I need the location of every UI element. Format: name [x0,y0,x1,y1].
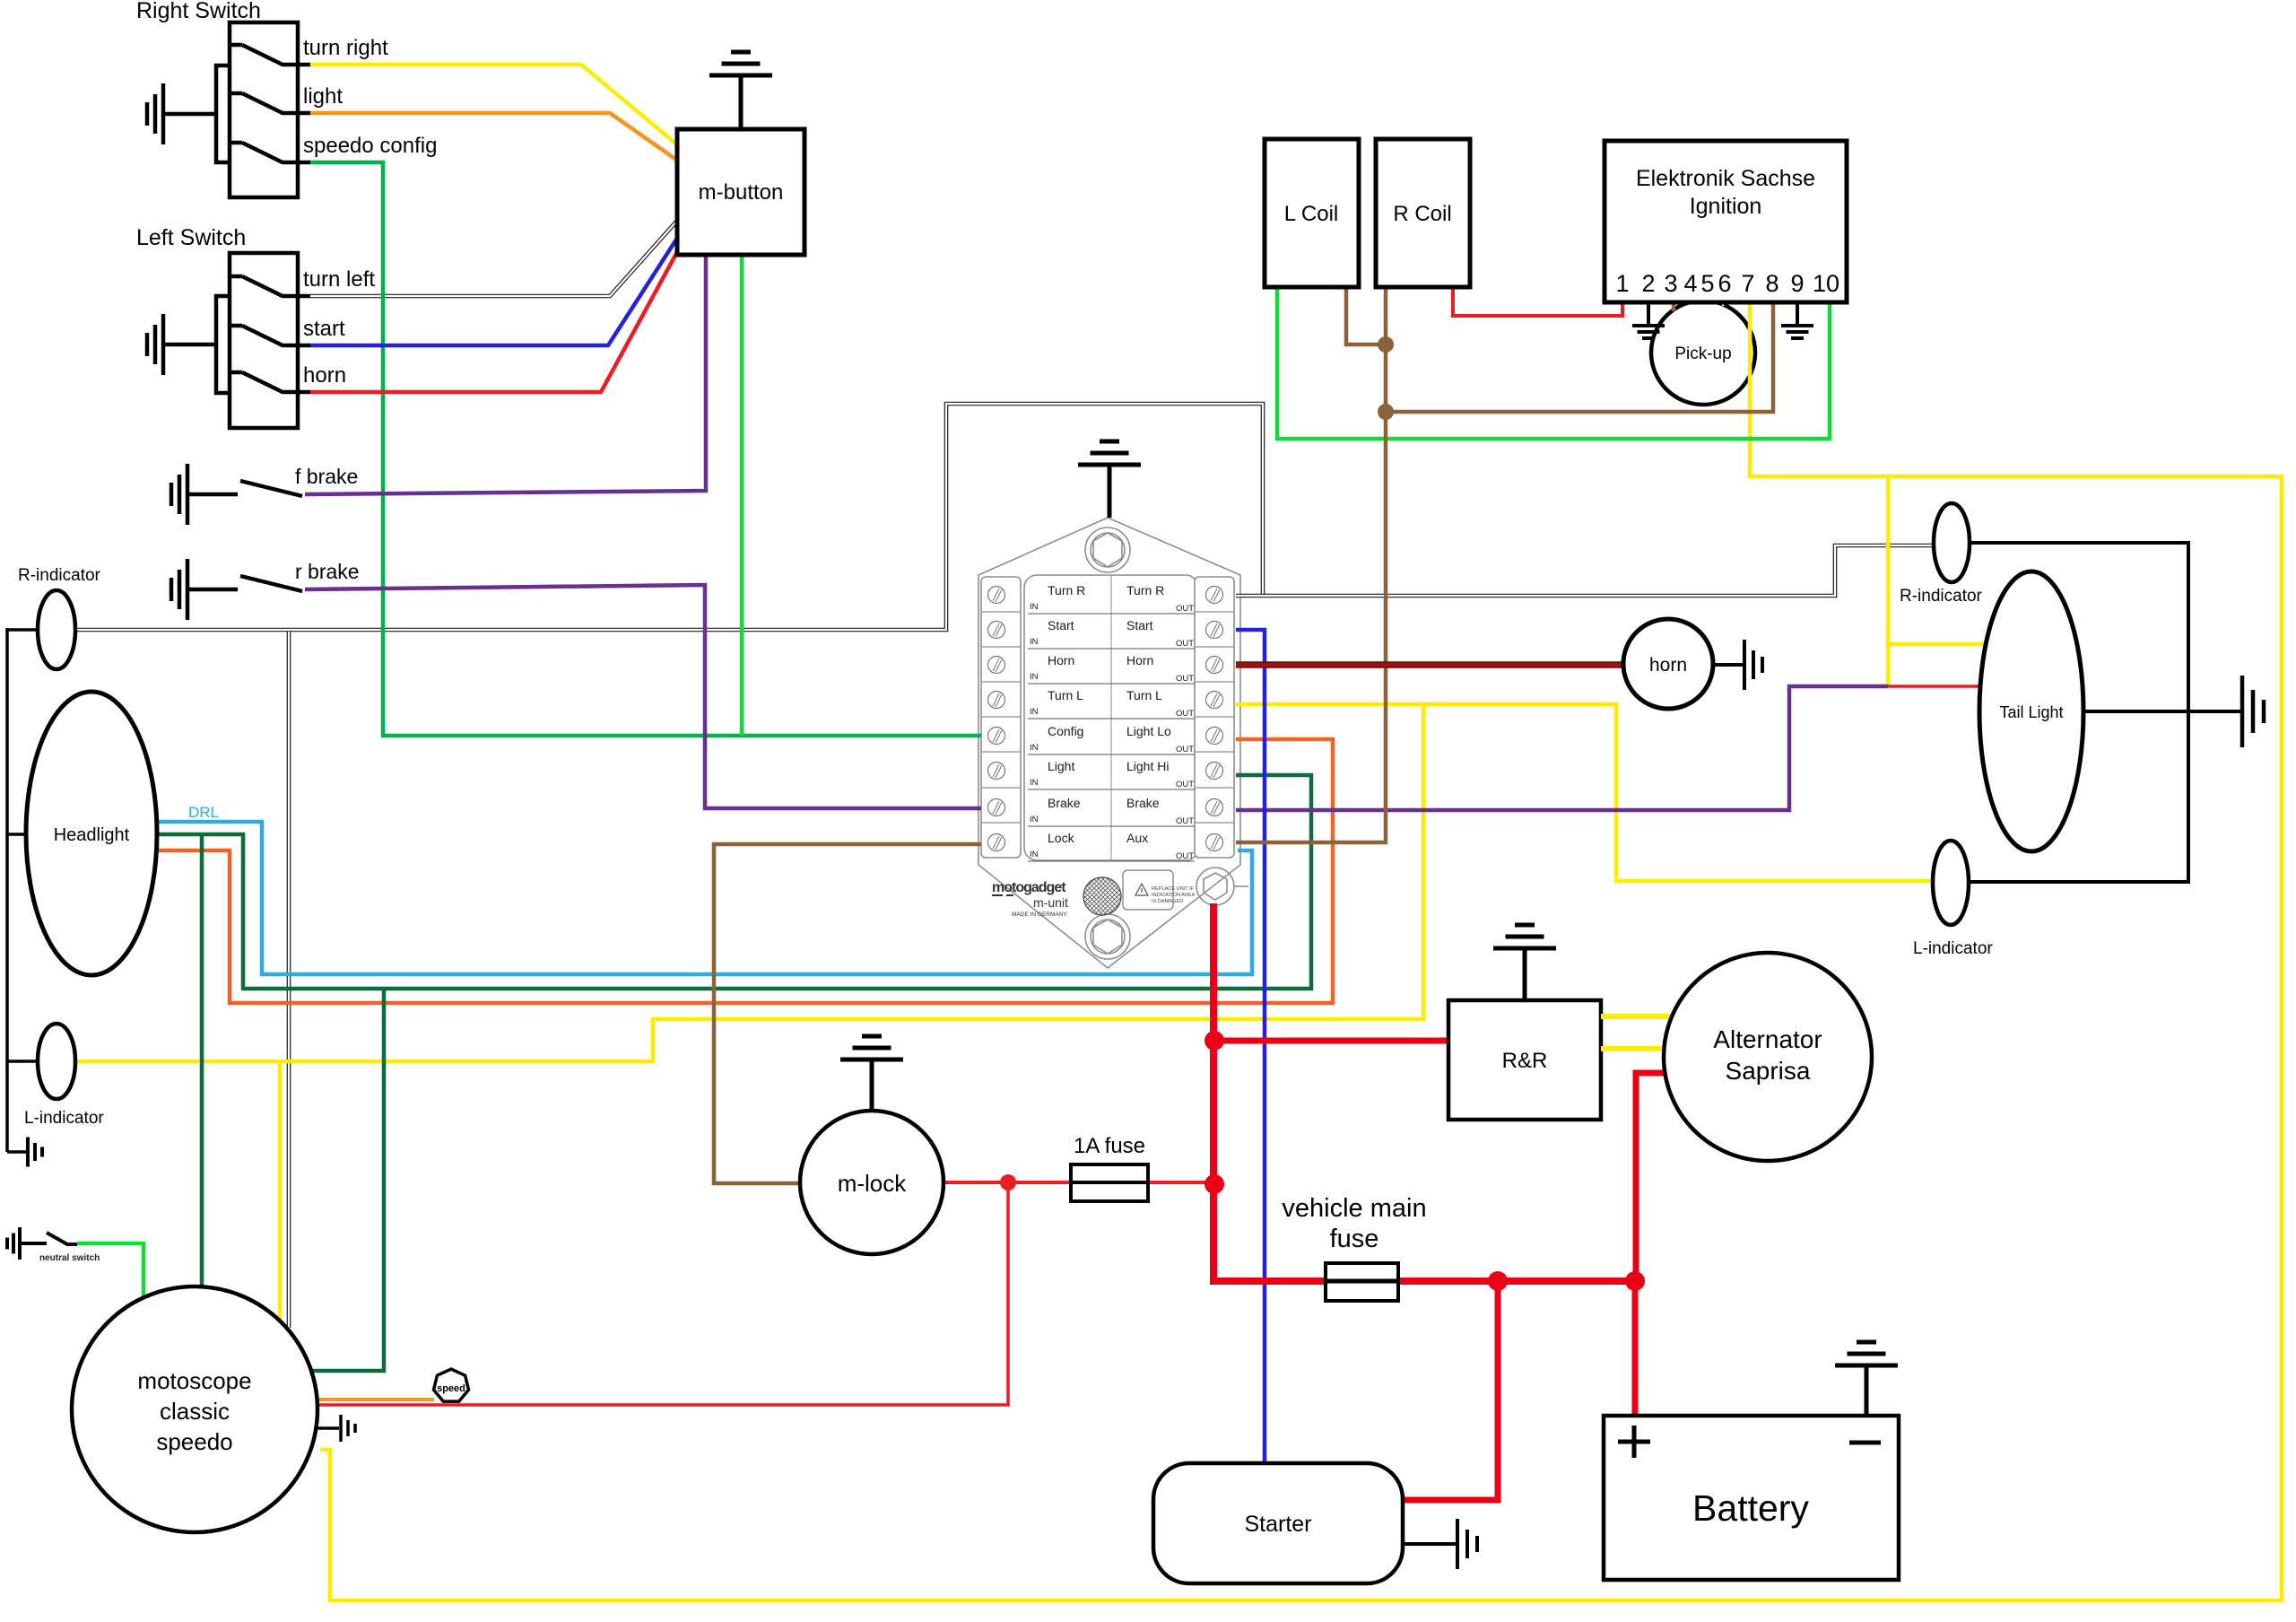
svg-text:6: 6 [1718,270,1731,297]
horn circle [1623,619,1713,709]
wire: dark green headlight branch to speedo top [200,834,204,1301]
r brake switch [187,588,238,592]
ground for Right Switch [163,112,216,117]
1A fuse [1071,1164,1148,1201]
Right Switch bracket [216,65,230,162]
svg-text:Starter: Starter [1244,1512,1311,1537]
svg-text:5: 5 [1700,270,1714,297]
wire: brown Aux OUT to coils [1236,278,1386,842]
wire: green speedo-config switch to Config IN [310,162,981,736]
svg-text:1A fuse: 1A fuse [1074,1134,1145,1158]
m-lock circle [800,1111,944,1254]
wire: dark green Light Hi OUT to headlight [143,775,1311,989]
wire: purple r-brake to Brake IN [305,585,981,808]
Right Switch box [230,22,298,197]
ground ignition pin 9 [1796,302,1799,326]
wire: red horn switch to m-button [310,250,678,392]
left harness black bus [5,628,9,1152]
tail light ground line [2083,710,2240,713]
wire: thick red bus to Battery + [1632,1281,1639,1422]
wire: yellow turn-right switch to m-button [310,65,679,146]
L-indicator right ellipse [1933,841,1969,925]
ground above R&R [1523,948,1527,1000]
Pick-up circle (under wires) [1651,301,1755,405]
L-indicator left ellipse [38,1024,75,1099]
wire: red R Coil to ignition pin 1 [1453,278,1622,316]
m-unit channel labels [1028,583,1195,861]
black link R-indicator to L-indicator right [1970,543,2188,882]
wire: green ignition pin 4 to pick-up [1691,296,1695,303]
svg-text:motogadget: motogadget [992,880,1066,895]
svg-text:L-indicator: L-indicator [1913,939,1993,958]
svg-text:Ignition: Ignition [1690,194,1762,219]
neutral switch [20,1242,47,1245]
Left Switch bracket [216,296,230,393]
Alternator Saprisa circle [1664,953,1872,1161]
speedo ground [314,1426,339,1430]
vehicle main fuse [1326,1263,1398,1301]
svg-text:m-lock: m-lock [838,1170,908,1197]
svg-text:Horn: Horn [1048,653,1074,667]
svg-text:Left Switch: Left Switch [136,225,246,250]
junction: brown node L Coil tap [1378,336,1394,353]
svg-text:Saprisa: Saprisa [1726,1057,1811,1085]
svg-text:vehicle main: vehicle main [1282,1194,1426,1223]
svg-text:3: 3 [1664,270,1677,297]
svg-text:Brake: Brake [1048,796,1081,810]
svg-text:2: 2 [1641,270,1655,297]
svg-text:Start: Start [1048,618,1074,632]
Left Switch contacts [230,276,310,296]
left L-indicator stub [7,1060,39,1063]
speed sensor hexagon [434,1369,469,1401]
junction: red node at R&R tap [1205,1031,1224,1051]
svg-text:OUT: OUT [1176,816,1194,826]
wire: orange light switch to m-button [310,113,679,161]
junction: red node bus to battery [1625,1271,1645,1291]
junction: red node at m-lock output [1000,1174,1016,1190]
svg-text:OUT: OUT [1176,780,1194,789]
wire: white turn-left switch to m-button [310,221,677,296]
Battery box [1604,1416,1899,1580]
junction: brown node pin 8 tap [1378,404,1394,420]
battery plus sign [1618,1426,1650,1458]
svg-text:Turn L: Turn L [1048,688,1083,702]
wire: blue Start OUT to Starter [1236,630,1265,1471]
wire: thick red main power m-unit to bus [1213,903,1635,1281]
wire: white R-indicator loop around m-unit to Turn R OUT [75,404,1263,630]
battery minus bar [1849,1441,1881,1445]
wire: purple Brake OUT to tail light junction [1236,686,1888,810]
svg-text:Light Hi: Light Hi [1126,759,1169,773]
wire: brown branch to L Coil [1346,278,1386,344]
wire: thick red bus to R&R [1213,1038,1457,1044]
svg-text:DRL: DRL [188,804,219,821]
ground above m-button [739,75,744,129]
wire: white speedo feed [287,632,291,1328]
wire: blue start switch to m-button [310,240,676,345]
ground for horn [1713,663,1743,667]
wire: yellow Turn L OUT to right L-indicator [1236,704,1935,881]
svg-text:OUT: OUT [1176,851,1194,861]
svg-text:L Coil: L Coil [1284,202,1338,226]
Elektronik Sachse Ignition box [1605,141,1847,302]
wire: yellow Turn L branch to left L-indicator [75,704,1423,1061]
motoscope classic speedo circle [72,1286,317,1532]
svg-text:horn: horn [1649,655,1687,676]
svg-text:8: 8 [1765,270,1779,297]
f brake switch [187,493,238,497]
ground above m-unit [1108,465,1112,518]
wire: white Turn R OUT to right R-indicator [1236,545,1935,596]
svg-text:IN: IN [1030,778,1039,788]
svg-text:classic: classic [160,1398,230,1425]
wire: green neutral switch to speedo [77,1243,143,1301]
svg-text:10: 10 [1813,270,1839,297]
R-indicator left ellipse [38,590,75,669]
svg-text:Elektronik Sachse: Elektronik Sachse [1636,166,1815,191]
svg-text:Turn R: Turn R [1048,583,1085,597]
wire: thick red bus to Starter [1395,1281,1498,1500]
svg-text:IN: IN [1030,707,1039,717]
svg-text:turn left: turn left [303,267,375,292]
svg-text:OUT: OUT [1176,604,1194,614]
wire: red tail light brake feed [1888,685,1987,688]
svg-text:IN: IN [1030,637,1039,647]
svg-text:OUT: OUT [1176,674,1194,684]
svg-text:MADE IN GERMANY: MADE IN GERMANY [1012,911,1067,918]
svg-text:f brake: f brake [295,465,358,488]
svg-text:IN: IN [1030,815,1039,824]
ground for Left Switch [163,343,216,347]
left R-indicator stub [7,628,39,632]
svg-text:speedo config: speedo config [303,134,437,158]
ground ignition pin 2 [1647,302,1650,326]
Tail Light ellipse [1979,571,2083,851]
wire: dark red Horn OUT to horn [1236,661,1641,668]
junction: red node at 1A fuse line [1205,1174,1224,1194]
svg-text:4: 4 [1683,270,1697,297]
svg-text:IN: IN [1030,672,1039,682]
svg-text:Right Switch: Right Switch [136,0,261,23]
wire: green m-button to config line [740,251,744,736]
svg-text:Brake: Brake [1126,796,1160,810]
svg-text:horn: horn [303,363,346,388]
svg-text:m-button: m-button [699,180,784,205]
svg-text:R&R: R&R [1502,1049,1548,1073]
svg-text:Pick-up: Pick-up [1674,344,1731,363]
wire: brown ignition pin 3 to pick-up [1672,296,1676,311]
wire: yellow left L-indicator to speedo [278,1061,283,1326]
headlight stub [7,833,36,836]
svg-text:REPLACE UNIT IF: REPLACE UNIT IF [1152,886,1195,892]
m-unit terminal strip L [981,577,1021,858]
wire: brown branch to ignition pin 8 [1386,296,1773,412]
svg-text:IN: IN [1030,850,1039,859]
R Coil box [1376,139,1470,287]
svg-text:Horn: Horn [1126,653,1153,667]
svg-text:light: light [303,84,343,109]
wire: purple f-brake to m-button [305,251,706,494]
svg-text:IN: IN [1030,602,1039,612]
wire: white ignition pin6 to pick-up [1721,296,1726,306]
svg-text:Headlight: Headlight [54,825,130,845]
svg-text:Light: Light [1048,759,1074,773]
svg-text:m-unit: m-unit [1033,895,1068,910]
R&R regulator box [1448,1000,1601,1120]
svg-text:L-indicator: L-indicator [24,1109,104,1128]
wire: yellow tail light branch [1886,476,1891,686]
svg-text:speedo: speedo [156,1428,232,1455]
svg-text:Alternator: Alternator [1713,1025,1822,1053]
svg-text:IN: IN [1030,743,1039,753]
wire: dark green branch to speedo right [309,989,384,1371]
svg-text:Aux: Aux [1126,831,1148,845]
svg-text:1: 1 [1615,270,1629,297]
svg-text:Light Lo: Light Lo [1126,724,1171,738]
svg-text:IS DAMAGED: IS DAMAGED [1152,899,1183,904]
svg-text:Battery: Battery [1692,1487,1809,1529]
svg-text:OUT: OUT [1176,709,1194,719]
wire: thick red Alternator to bus [1636,1073,1673,1281]
wire: orange speedo to speed sensor [309,1398,434,1401]
L Coil box [1265,139,1359,287]
wire: cyan DRL headlight to Aux OUT [143,822,1252,974]
R-indicator right ellipse [1934,503,1970,582]
Headlight ellipse [26,692,157,975]
svg-text:Turn R: Turn R [1126,583,1164,597]
svg-text:R Coil: R Coil [1393,202,1451,226]
wire: red speedo to m-lock junction [305,1182,1008,1405]
svg-text:Config: Config [1048,724,1083,738]
svg-text:OUT: OUT [1176,745,1194,754]
m-unit terminal strip R [1195,577,1234,858]
yellow R&R to alternator wires [1601,1014,1677,1019]
svg-text:fuse: fuse [1330,1225,1379,1253]
svg-text:Start: Start [1126,618,1153,632]
ground left harness [7,1150,26,1154]
svg-text:Turn L: Turn L [1126,688,1162,702]
ground above m-lock [870,1060,874,1112]
svg-text:turn right: turn right [303,36,388,60]
m-button box [677,129,804,255]
ground above battery [1865,1365,1869,1416]
svg-text:speed: speed [437,1383,465,1394]
m-unit U1 motogadget control unit body [978,518,1248,968]
wire: green L Coil to ignition pin 10 [1277,278,1830,439]
svg-text:OUT: OUT [1176,639,1194,649]
svg-text:R-indicator: R-indicator [18,566,101,585]
junction: red node bus to starter [1488,1271,1508,1291]
wire: orange-red Light Lo OUT to headlight [143,739,1333,1003]
wire: brown Lock IN to m-lock [714,844,981,1183]
svg-text:motoscope: motoscope [137,1367,251,1394]
Starter rounded box [1153,1463,1403,1583]
wire: red m-lock to 1A fuse to main junction [937,1181,1215,1184]
starter ground [1403,1542,1456,1546]
svg-text:7: 7 [1741,270,1754,297]
wire: yellow ignition pin 5 to pick-up [1706,296,1710,302]
svg-text:start: start [303,317,345,341]
Left Switch box [230,253,298,428]
svg-text:neutral switch: neutral switch [39,1253,100,1263]
svg-text:R-indicator: R-indicator [1900,587,1983,606]
svg-text:Tail Light: Tail Light [1999,703,2063,721]
Right Switch contacts [230,45,310,65]
svg-text:9: 9 [1790,270,1804,297]
wire: yellow speedo bottom loop to ignition pin 7 [320,296,2282,1600]
svg-text:Lock: Lock [1048,831,1075,845]
svg-text:r brake: r brake [295,560,360,583]
m-unit logo block [992,880,1068,918]
svg-text:INDICATION AREA: INDICATION AREA [1152,893,1196,898]
